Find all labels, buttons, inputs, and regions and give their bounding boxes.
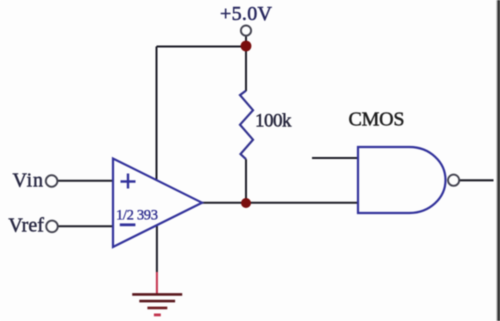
svg-text:+5.0V: +5.0V bbox=[220, 3, 273, 25]
svg-text:CMOS: CMOS bbox=[349, 109, 405, 131]
svg-text:1/2 393: 1/2 393 bbox=[116, 207, 158, 223]
svg-text:Vin: Vin bbox=[13, 170, 44, 192]
svg-text:100k: 100k bbox=[255, 111, 292, 132]
svg-text:Vref: Vref bbox=[8, 215, 44, 237]
